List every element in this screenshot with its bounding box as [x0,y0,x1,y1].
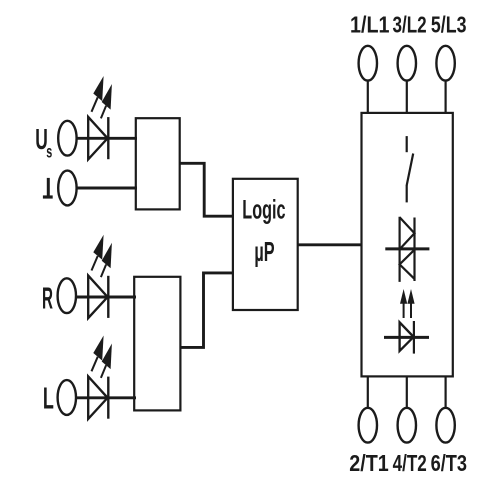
wire 2/T1 to block [367,376,369,407]
wire ground to block1 [78,187,138,190]
svg-text:3/L2: 3/L2 [393,12,427,38]
svg-text:6/T3: 6/T3 [431,451,467,477]
wire logic output to power block [298,243,362,246]
terminal 6/T3 [436,408,454,443]
LED D2 (R indicator) [88,235,112,318]
terminal R [58,278,76,313]
wire 1/L1 to block [367,81,369,113]
LED D4 (optocoupler emitter) [384,321,429,354]
wire L to block2 [77,396,136,399]
terminal L [58,380,76,415]
wire 4/T2 to block [406,376,408,407]
block U4 (power output block) [362,113,453,377]
svg-text:R: R [42,282,53,316]
svg-text:4/T2: 4/T2 [393,451,427,477]
LED D3 (L indicator) [88,336,112,419]
triac Q1 [385,217,429,282]
wire 6/T3 to block [445,376,447,407]
label Us [35,124,52,163]
svg-text:1/L1: 1/L1 [350,11,389,38]
block U1 (input stage) [136,118,180,209]
svg-text:s: s [46,143,52,162]
svg-text:µP: µP [254,235,274,267]
ground symbol [43,178,53,197]
wire block2 output to logic [180,273,233,348]
terminal 3/L2 [398,46,416,81]
wire 3/L2 to block [406,81,408,113]
LED D1 (Us indicator) [88,76,112,159]
switch S1 [407,136,414,202]
terminal 4/T2 [398,408,416,443]
terminal 5/L3 [436,46,454,81]
terminal Us [58,121,76,156]
svg-text:2/T1: 2/T1 [349,450,388,477]
block U2 (input stage) [134,277,180,411]
svg-text:5/L3: 5/L3 [431,12,467,38]
wire R to block2 [77,296,136,299]
wire block1 output to logic [180,163,233,216]
wire 5/L3 to block [445,81,447,113]
terminal 2/T1 [359,408,377,443]
optocoupler light arrows [400,289,415,318]
terminal ground [58,171,76,206]
wire Us to block1 [78,137,138,140]
terminal 1/L1 [359,46,377,81]
svg-text:L: L [43,382,54,416]
svg-text:Logic: Logic [242,194,285,224]
block U3 Logic uP [233,179,298,310]
